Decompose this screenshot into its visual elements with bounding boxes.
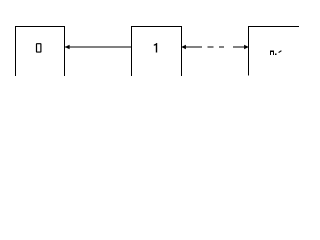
wire arrow from cell 1 to cell 0	[65, 46, 132, 48]
label n-1	[270, 51, 281, 55]
label 1	[154, 43, 157, 53]
box cell 1	[132, 27, 182, 77]
label 0	[36, 43, 42, 53]
box cell n-1 (clipped, open right)	[249, 27, 300, 76]
arrowhead at cell 1 (pointing left)	[181, 45, 186, 49]
arrowhead at cell 0 (pointing left)	[65, 45, 70, 49]
dashed wire arrow between cell 1 and cell n-1	[182, 46, 249, 48]
box cell 0	[16, 27, 65, 77]
arrowhead at cell n-1 (pointing right)	[244, 45, 249, 49]
